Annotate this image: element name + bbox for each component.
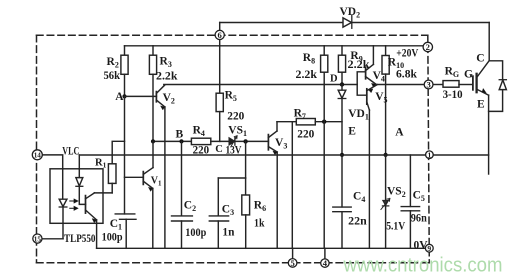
pin 3 terminal circle	[424, 80, 433, 89]
pin 5 terminal circle	[288, 259, 297, 268]
svg-text:2.2k: 2.2k	[348, 59, 371, 71]
wire: VS1 node riser down to C3/R6 tee	[245, 141, 247, 178]
capacitor C2	[181, 141, 183, 215]
wire: E rail drop into optocoupler anode	[78, 155, 80, 169]
wire: VS1 to V3 base	[235, 140, 269, 142]
diode VD2	[343, 18, 352, 27]
svg-text:www.cntronics.com: www.cntronics.com	[343, 255, 503, 277]
wire: top desat wire from VD2 cathode to collector riser	[352, 22, 489, 24]
pin 2 terminal circle	[423, 42, 432, 51]
wire: V1 base from node A line	[125, 176, 144, 178]
wire: +20V top rail from R2 to pin 2	[125, 45, 424, 47]
svg-text:+20V: +20V	[396, 47, 419, 59]
light arrows	[70, 200, 75, 202]
capacitor C5	[409, 155, 411, 206]
capacitor C4	[341, 155, 343, 207]
svg-text:0V: 0V	[414, 239, 429, 251]
svg-text:96n: 96n	[411, 212, 428, 224]
wire: bottom 0V internal rail	[97, 247, 426, 249]
transistor V4	[365, 67, 367, 79]
pin 9 terminal circle	[425, 244, 433, 252]
node B junction dot	[179, 139, 183, 143]
svg-text:3: 3	[426, 80, 430, 90]
svg-text:E: E	[348, 125, 356, 137]
IGBT body bar	[475, 74, 477, 92]
wire: R4 to zener VS1	[211, 140, 229, 142]
wire: V3 collector to R7	[277, 121, 296, 123]
IGBT freewheel diode branch	[489, 61, 502, 80]
svg-text:100p: 100p	[102, 231, 123, 243]
transistor V2	[155, 92, 157, 102]
zener diode VS1	[229, 138, 234, 145]
wire: R7 right lead to VD1 line	[315, 121, 342, 123]
wire: node A to V2 base	[125, 95, 157, 97]
svg-text:220: 220	[297, 128, 314, 140]
IGBT collector	[478, 61, 490, 77]
svg-text:13V: 13V	[226, 144, 243, 156]
svg-text:2: 2	[426, 42, 430, 52]
svg-text:100p: 100p	[185, 227, 206, 239]
wire: tee to C3	[218, 177, 245, 179]
resistor R3	[152, 46, 154, 57]
wire: pin 6 riser down to R5	[219, 40, 221, 94]
optocoupler TLP550 box	[50, 169, 103, 224]
svg-text:E: E	[477, 99, 485, 111]
junction dot R7/pin4 line	[322, 120, 326, 124]
IC boundary dashed box bottom edge	[37, 262, 429, 264]
wire: R10 line down to E rail	[385, 74, 387, 155]
svg-text:C: C	[476, 52, 484, 64]
svg-text:15: 15	[34, 235, 42, 243]
svg-text:220: 220	[227, 110, 244, 122]
pin 4 terminal circle	[321, 259, 329, 267]
svg-text:220: 220	[193, 144, 210, 156]
wire: pin 14 to LED anode	[42, 155, 62, 199]
node junction dot right of VS1	[243, 139, 247, 143]
capacitor C1	[115, 213, 135, 215]
svg-text:D: D	[330, 73, 338, 84]
resistor R9	[341, 46, 343, 55]
svg-text:14: 14	[34, 152, 42, 160]
IC boundary dashed box left edge	[36, 35, 38, 263]
svg-text:6.8k: 6.8k	[396, 68, 418, 80]
node A junction dot	[122, 94, 126, 98]
svg-text:3-10: 3-10	[443, 89, 463, 101]
IGBT gate bar	[472, 76, 474, 90]
transistor V5	[366, 89, 368, 104]
svg-text:1: 1	[428, 151, 432, 160]
junction dot VD1/C4 on E rail	[340, 153, 344, 157]
resistor R10	[385, 46, 387, 56]
IC boundary dashed box top edge	[37, 34, 428, 36]
wire: top desat wire from pin 6 to VD2 anode	[220, 22, 343, 24]
svg-text:56k: 56k	[104, 70, 121, 82]
zener diode VS2	[385, 155, 387, 200]
svg-text:4: 4	[323, 258, 328, 268]
svg-text:1k: 1k	[254, 217, 265, 229]
svg-text:22n: 22n	[348, 215, 367, 227]
wire: E rail (VLC / pin 1)	[79, 154, 488, 156]
svg-text:A: A	[395, 126, 404, 138]
transistor V1	[142, 172, 144, 185]
svg-text:5.1V: 5.1V	[386, 220, 406, 232]
resistor R8	[323, 46, 325, 55]
resistor RG	[443, 81, 459, 88]
resistor R6	[245, 178, 247, 195]
transistor V3	[267, 135, 269, 150]
pin 6 terminal circle	[215, 30, 224, 39]
node junction dot at R3/V1 collector	[151, 139, 155, 143]
svg-text:VLC: VLC	[62, 145, 79, 157]
resistor R2	[124, 46, 126, 57]
svg-text:A: A	[115, 91, 124, 103]
pin 15 terminal circle	[33, 234, 42, 243]
pin 1 terminal circle	[426, 151, 434, 159]
svg-text:5: 5	[290, 258, 294, 268]
svg-text:B: B	[176, 128, 184, 140]
svg-text:1n: 1n	[222, 227, 235, 239]
wire: LED cathode to pin 15	[42, 238, 63, 240]
junction dot R10/VS2 on E rail	[384, 153, 388, 157]
svg-text:2.2k: 2.2k	[296, 69, 318, 81]
node D junction dot	[340, 82, 344, 86]
svg-text:9: 9	[427, 244, 431, 253]
LED inside TLP550	[59, 199, 67, 206]
wire: totem output to pin 3	[377, 84, 425, 86]
resistor R4	[191, 138, 210, 144]
wire: pin 3 to RG	[433, 84, 443, 86]
svg-text:C: C	[215, 144, 223, 155]
wire: B node row from R3 to R4	[153, 140, 191, 142]
diode VD1	[341, 85, 343, 91]
wire: pin 6 stub up to top wire	[219, 23, 221, 31]
capacitor C3	[217, 178, 219, 216]
wire: V2 collector line to V4/V5 base bus through node D	[164, 84, 357, 86]
svg-text:G: G	[464, 68, 473, 80]
resistor R5	[216, 93, 223, 111]
svg-text:TLP550: TLP550	[64, 233, 96, 245]
wire: node A line down to C1	[124, 96, 126, 213]
IC boundary dashed box right edge	[428, 35, 430, 263]
wire: pin 4 stub below rail	[324, 248, 326, 259]
wire: pin 5 stub below rail	[292, 248, 294, 258]
input clamp diode inside TLP550	[78, 169, 80, 178]
IGBT emitter	[478, 90, 489, 96]
resistor R7	[296, 119, 315, 125]
pin 14 terminal circle	[32, 150, 42, 160]
phototransistor inside TLP550	[85, 196, 87, 214]
resistor R1	[108, 164, 116, 184]
wire: RG to IGBT gate	[459, 84, 473, 86]
svg-text:2.2k: 2.2k	[156, 71, 178, 83]
wire: R8 bottom line down to pin 4	[323, 72, 325, 248]
svg-text:6: 6	[218, 30, 223, 40]
wire: V4/V5 base bus	[357, 72, 367, 95]
wire: pin 5 riser from R7 node down to pin 5	[291, 122, 293, 249]
